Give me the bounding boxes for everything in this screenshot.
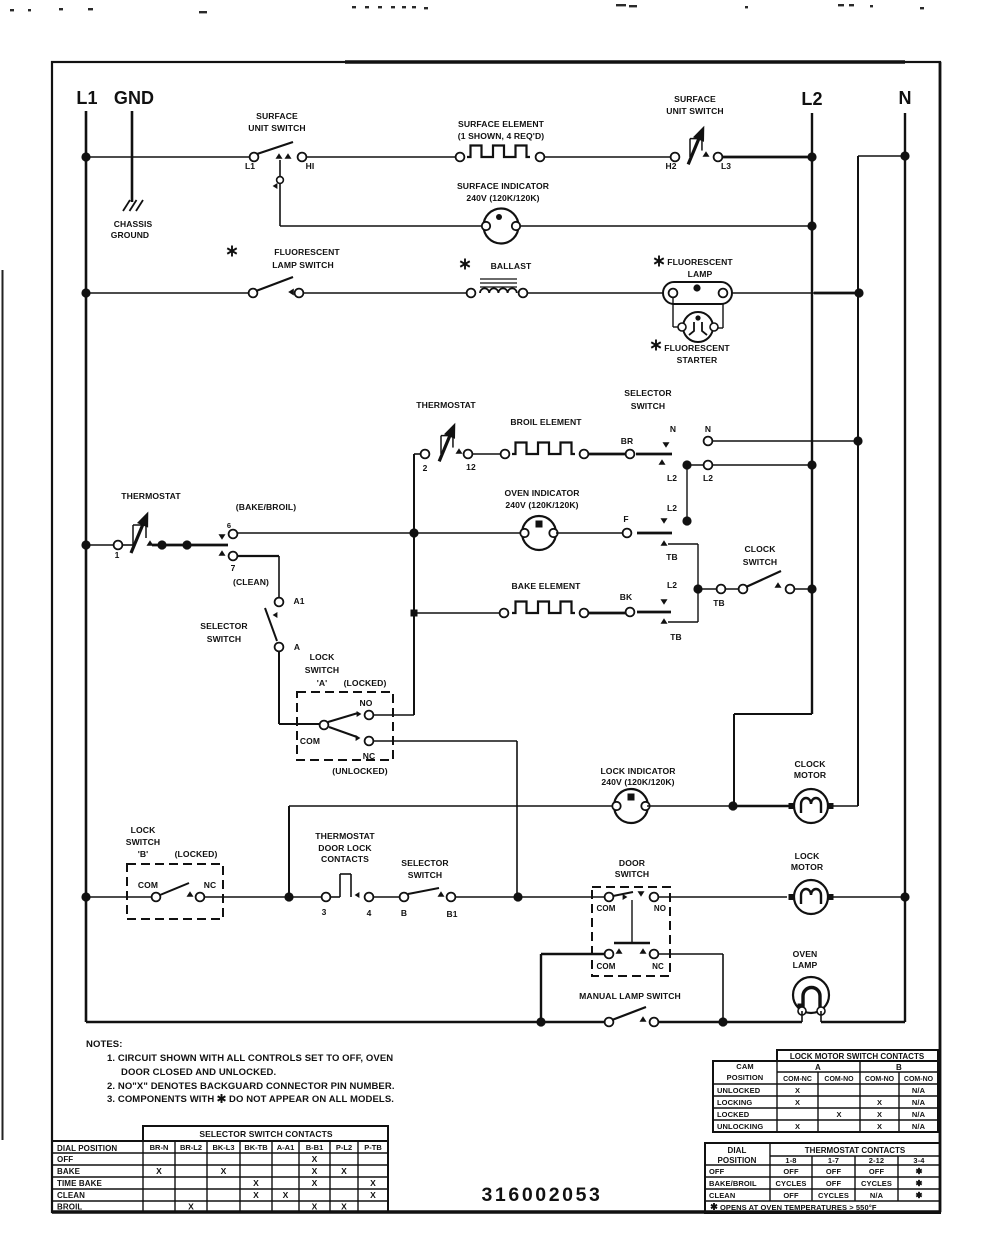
svg-text:L1: L1: [245, 161, 255, 171]
svg-text:SWITCH: SWITCH: [207, 634, 242, 644]
svg-text:(CLEAN): (CLEAN): [233, 577, 269, 587]
svg-text:X: X: [795, 1122, 800, 1131]
svg-text:X: X: [341, 1166, 347, 1176]
svg-text:N/A: N/A: [912, 1098, 926, 1107]
svg-text:MOTOR: MOTOR: [794, 770, 827, 780]
svg-text:X: X: [877, 1122, 882, 1131]
svg-text:'B': 'B': [138, 849, 149, 859]
svg-text:OPENS AT OVEN TEMPERATURES > 5: OPENS AT OVEN TEMPERATURES > 550°F: [720, 1203, 877, 1212]
svg-text:LOCK INDICATOR: LOCK INDICATOR: [600, 766, 676, 776]
svg-text:THERMOSTAT: THERMOSTAT: [121, 491, 181, 501]
svg-text:CHASSIS: CHASSIS: [114, 219, 153, 229]
svg-text:OFF: OFF: [869, 1167, 885, 1176]
svg-text:X: X: [341, 1202, 347, 1212]
svg-text:CAM: CAM: [736, 1062, 753, 1071]
svg-text:CYCLES: CYCLES: [775, 1179, 806, 1188]
svg-text:POSITION: POSITION: [717, 1156, 756, 1165]
svg-text:L2: L2: [801, 89, 822, 109]
svg-text:1: 1: [115, 550, 120, 560]
svg-text:NOTES:: NOTES:: [86, 1039, 123, 1050]
svg-text:CLEAN: CLEAN: [57, 1191, 85, 1200]
svg-text:OVEN INDICATOR: OVEN INDICATOR: [504, 488, 580, 498]
svg-text:A1: A1: [293, 596, 304, 606]
svg-text:OVEN: OVEN: [793, 949, 818, 959]
svg-text:(BAKE/BROIL): (BAKE/BROIL): [236, 502, 296, 512]
svg-text:UNIT SWITCH: UNIT SWITCH: [666, 106, 723, 116]
svg-text:N/A: N/A: [912, 1110, 926, 1119]
svg-text:TB: TB: [670, 632, 682, 642]
svg-text:L2: L2: [667, 580, 677, 590]
svg-text:X: X: [283, 1190, 289, 1200]
svg-text:X: X: [188, 1202, 194, 1212]
svg-text:COM: COM: [597, 904, 616, 913]
svg-text:316002053: 316002053: [481, 1184, 602, 1206]
svg-text:DO NOT APPEAR ON ALL MODELS.: DO NOT APPEAR ON ALL MODELS.: [229, 1094, 394, 1105]
svg-text:2-12: 2-12: [869, 1156, 884, 1165]
svg-text:B: B: [401, 908, 407, 918]
svg-text:12: 12: [466, 462, 476, 472]
svg-text:X: X: [795, 1098, 800, 1107]
svg-text:3-4: 3-4: [913, 1156, 925, 1165]
svg-text:1. CIRCUIT SHOWN WITH ALL CONT: 1. CIRCUIT SHOWN WITH ALL CONTROLS SET T…: [107, 1053, 393, 1064]
svg-text:FLUORESCENT: FLUORESCENT: [274, 247, 340, 257]
svg-text:THERMOSTAT: THERMOSTAT: [315, 831, 375, 841]
svg-text:SWITCH: SWITCH: [615, 869, 650, 879]
svg-text:SURFACE: SURFACE: [674, 94, 716, 104]
svg-text:1-8: 1-8: [785, 1156, 796, 1165]
svg-text:(1 SHOWN, 4 REQ'D): (1 SHOWN, 4 REQ'D): [458, 131, 544, 141]
svg-text:BR-N: BR-N: [150, 1143, 169, 1152]
svg-text:LOCKED: LOCKED: [717, 1110, 750, 1119]
svg-text:SELECTOR SWITCH CONTACTS: SELECTOR SWITCH CONTACTS: [199, 1129, 333, 1139]
svg-text:NC: NC: [363, 751, 375, 761]
svg-text:X: X: [877, 1110, 882, 1119]
svg-text:LOCK: LOCK: [795, 851, 820, 861]
svg-text:CYCLES: CYCLES: [818, 1191, 849, 1200]
svg-text:B1: B1: [446, 909, 457, 919]
svg-text:TB: TB: [666, 552, 678, 562]
svg-text:COM-NO: COM-NO: [824, 1076, 854, 1083]
svg-text:DOOR CLOSED AND UNLOCKED.: DOOR CLOSED AND UNLOCKED.: [121, 1067, 276, 1078]
svg-text:COM-NO: COM-NO: [865, 1076, 895, 1083]
svg-text:L2: L2: [667, 503, 677, 513]
svg-text:FLUORESCENT: FLUORESCENT: [667, 257, 733, 267]
svg-text:MOTOR: MOTOR: [791, 862, 824, 872]
svg-text:N/A: N/A: [912, 1086, 926, 1095]
svg-text:(UNLOCKED): (UNLOCKED): [332, 766, 387, 776]
svg-text:L1: L1: [76, 88, 97, 108]
svg-text:X: X: [877, 1098, 882, 1107]
svg-text:THERMOSTAT CONTACTS: THERMOSTAT CONTACTS: [805, 1146, 906, 1155]
svg-text:GROUND: GROUND: [111, 230, 149, 240]
svg-text:SURFACE INDICATOR: SURFACE INDICATOR: [457, 181, 550, 191]
svg-text:SELECTOR: SELECTOR: [624, 388, 672, 398]
svg-text:FLUORESCENT: FLUORESCENT: [664, 343, 730, 353]
svg-text:P-TB: P-TB: [364, 1143, 382, 1152]
svg-text:BR: BR: [621, 436, 633, 446]
svg-text:SWITCH: SWITCH: [743, 557, 778, 567]
svg-text:BAKE: BAKE: [57, 1167, 81, 1176]
svg-text:X: X: [221, 1166, 227, 1176]
svg-text:X: X: [312, 1154, 318, 1164]
svg-text:LAMP: LAMP: [688, 269, 713, 279]
svg-text:7: 7: [231, 563, 236, 573]
svg-text:H2: H2: [665, 161, 676, 171]
svg-text:COM-NC: COM-NC: [783, 1076, 812, 1083]
svg-text:L2: L2: [703, 473, 713, 483]
svg-text:X: X: [312, 1178, 318, 1188]
svg-text:BAKE/BROIL: BAKE/BROIL: [709, 1179, 757, 1188]
svg-text:CYCLES: CYCLES: [861, 1179, 892, 1188]
svg-text:SURFACE: SURFACE: [256, 111, 298, 121]
svg-text:6: 6: [227, 521, 231, 530]
svg-text:CLOCK: CLOCK: [794, 759, 826, 769]
svg-text:BR-L2: BR-L2: [180, 1143, 202, 1152]
svg-text:DIAL POSITION: DIAL POSITION: [57, 1144, 117, 1153]
svg-text:CLOCK: CLOCK: [744, 544, 776, 554]
svg-text:LAMP: LAMP: [793, 960, 818, 970]
svg-text:X: X: [253, 1190, 259, 1200]
svg-text:N/A: N/A: [870, 1191, 884, 1200]
svg-text:SELECTOR: SELECTOR: [401, 858, 449, 868]
svg-text:X: X: [370, 1190, 376, 1200]
svg-text:CLEAN: CLEAN: [709, 1191, 735, 1200]
svg-text:1-7: 1-7: [828, 1156, 839, 1165]
svg-text:COM: COM: [597, 962, 616, 971]
svg-text:BK-L3: BK-L3: [212, 1143, 234, 1152]
svg-text:COM: COM: [138, 880, 158, 890]
svg-text:SWITCH: SWITCH: [126, 837, 161, 847]
svg-text:OFF: OFF: [783, 1167, 799, 1176]
svg-text:X: X: [370, 1178, 376, 1188]
svg-text:L3: L3: [721, 161, 731, 171]
svg-text:X: X: [836, 1110, 841, 1119]
svg-text:4: 4: [367, 908, 372, 918]
svg-text:OFF: OFF: [783, 1191, 799, 1200]
svg-text:POSITION: POSITION: [727, 1073, 764, 1082]
svg-text:LOCK: LOCK: [131, 825, 156, 835]
svg-text:BALLAST: BALLAST: [491, 261, 532, 271]
svg-text:240V (120K/120K): 240V (120K/120K): [466, 193, 539, 203]
svg-text:LOCK MOTOR SWITCH CONTACTS: LOCK MOTOR SWITCH CONTACTS: [790, 1052, 925, 1061]
svg-text:HI: HI: [306, 161, 315, 171]
svg-text:STARTER: STARTER: [677, 355, 718, 365]
svg-text:UNLOCKED: UNLOCKED: [717, 1086, 761, 1095]
svg-text:DIAL: DIAL: [727, 1146, 746, 1155]
svg-text:BROIL ELEMENT: BROIL ELEMENT: [510, 417, 582, 427]
svg-text:SURFACE ELEMENT: SURFACE ELEMENT: [458, 119, 545, 129]
svg-text:COM-NO: COM-NO: [904, 1076, 934, 1083]
svg-text:NC: NC: [204, 880, 216, 890]
svg-text:LOCKING: LOCKING: [717, 1098, 752, 1107]
svg-text:MANUAL LAMP SWITCH: MANUAL LAMP SWITCH: [579, 991, 681, 1001]
svg-text:DOOR: DOOR: [619, 858, 646, 868]
svg-text:OFF: OFF: [826, 1179, 842, 1188]
svg-text:N/A: N/A: [912, 1122, 926, 1131]
svg-text:UNLOCKING: UNLOCKING: [717, 1122, 763, 1131]
svg-text:'A': 'A': [317, 678, 328, 688]
svg-text:BK-TB: BK-TB: [244, 1143, 268, 1152]
svg-text:N: N: [705, 424, 711, 434]
svg-text:B-B1: B-B1: [306, 1143, 324, 1152]
svg-text:NC: NC: [652, 962, 664, 971]
svg-text:GND: GND: [114, 88, 154, 108]
svg-text:BK: BK: [620, 592, 633, 602]
svg-text:2. NO"X" DENOTES BACKGUARD CON: 2. NO"X" DENOTES BACKGUARD CONNECTOR PIN…: [107, 1081, 395, 1092]
svg-text:NO: NO: [654, 904, 666, 913]
svg-text:SWITCH: SWITCH: [408, 870, 443, 880]
svg-text:CONTACTS: CONTACTS: [321, 854, 369, 864]
svg-text:TB: TB: [713, 598, 725, 608]
svg-text:SWITCH: SWITCH: [305, 665, 340, 675]
svg-text:240V (120K/120K): 240V (120K/120K): [601, 777, 674, 787]
svg-text:F: F: [623, 514, 628, 524]
svg-text:L2: L2: [667, 473, 677, 483]
svg-text:OFF: OFF: [826, 1167, 842, 1176]
svg-text:X: X: [795, 1086, 800, 1095]
svg-text:2: 2: [423, 463, 428, 473]
svg-text:B: B: [896, 1063, 902, 1072]
svg-text:BROIL: BROIL: [57, 1203, 82, 1212]
svg-text:X: X: [312, 1202, 318, 1212]
svg-text:N: N: [670, 424, 676, 434]
svg-text:UNIT SWITCH: UNIT SWITCH: [248, 123, 305, 133]
svg-text:(LOCKED): (LOCKED): [344, 678, 387, 688]
svg-text:X: X: [156, 1166, 162, 1176]
svg-text:SELECTOR: SELECTOR: [200, 621, 248, 631]
svg-text:THERMOSTAT: THERMOSTAT: [416, 400, 476, 410]
svg-text:X: X: [253, 1178, 259, 1188]
svg-text:A: A: [294, 642, 300, 652]
svg-text:A-A1: A-A1: [277, 1143, 295, 1152]
svg-text:P-L2: P-L2: [336, 1143, 352, 1152]
svg-text:COM: COM: [300, 736, 320, 746]
svg-text:A: A: [815, 1063, 821, 1072]
svg-text:NO: NO: [360, 698, 373, 708]
svg-text:OFF: OFF: [57, 1155, 73, 1164]
svg-text:3. COMPONENTS WITH: 3. COMPONENTS WITH: [107, 1094, 214, 1105]
svg-text:LAMP SWITCH: LAMP SWITCH: [272, 260, 334, 270]
svg-text:LOCK: LOCK: [310, 652, 335, 662]
svg-text:(LOCKED): (LOCKED): [175, 849, 218, 859]
svg-text:OFF: OFF: [709, 1167, 725, 1176]
svg-text:TIME BAKE: TIME BAKE: [57, 1179, 102, 1188]
svg-text:DOOR LOCK: DOOR LOCK: [318, 843, 372, 853]
svg-text:BAKE ELEMENT: BAKE ELEMENT: [512, 581, 582, 591]
svg-text:240V (120K/120K): 240V (120K/120K): [505, 500, 578, 510]
svg-text:3: 3: [322, 907, 327, 917]
svg-text:SWITCH: SWITCH: [631, 401, 666, 411]
svg-text:N: N: [898, 88, 911, 108]
svg-text:X: X: [312, 1166, 318, 1176]
